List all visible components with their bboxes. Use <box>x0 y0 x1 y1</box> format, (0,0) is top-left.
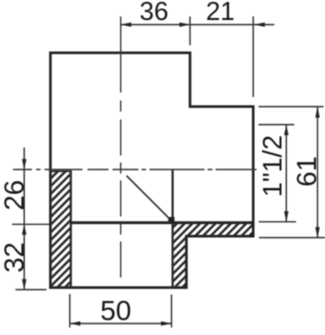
extension line bottom face y289.6 <box>16 289 47 291</box>
extension line outlet top y106.6 <box>259 106 324 108</box>
arrow down at 237.6 <box>315 227 320 238</box>
left dimension line 26 / 32 <box>23 148 25 290</box>
extension line bore right x171.5 <box>171 295 173 328</box>
seat line <box>70 221 253 224</box>
extension line bore left x69.8 <box>69 294 71 328</box>
extension line outlet bottom y237.6 <box>259 237 325 239</box>
dimension line 61 <box>317 107 319 238</box>
right bore line <box>172 170 174 288</box>
arrow up at 124.6 <box>284 125 289 136</box>
svg-text:32: 32 <box>0 242 30 273</box>
svg-text:50: 50 <box>100 295 131 326</box>
arrow down at 289.6 <box>22 279 27 290</box>
arrow right at 190 <box>180 22 191 27</box>
arrow left at 253.2 <box>254 22 264 27</box>
vertical centerline <box>120 17 122 285</box>
extension line x253 <box>252 16 254 97</box>
arrow left at 120.7 <box>121 22 132 27</box>
svg-text:36: 36 <box>140 0 169 26</box>
extension line x190 <box>189 16 191 45</box>
svg-text:21: 21 <box>206 0 235 26</box>
arrow up at 106.6 <box>315 107 320 118</box>
svg-text:1"1/2: 1"1/2 <box>258 135 288 197</box>
arrow right at 171.5 <box>161 321 172 326</box>
junction blob <box>168 217 174 222</box>
top dimension line 36 / 21 <box>121 24 275 26</box>
arrow down at 221.8 <box>284 211 289 222</box>
arrow down at 169.5 <box>22 159 27 170</box>
horizontal centerline / 26-top extension <box>13 169 257 171</box>
svg-text:61: 61 <box>291 156 322 187</box>
chamfer diagonal <box>127 176 173 222</box>
part outline <box>50 53 253 288</box>
arrow up at 224.3 <box>22 224 27 235</box>
dimension line 1"1/2 <box>285 125 287 222</box>
extension line thread top y124.6 <box>259 124 295 126</box>
bottom dimension line 50 <box>70 323 172 325</box>
arrow left at 69.8 <box>70 321 81 326</box>
svg-text:26: 26 <box>0 180 30 211</box>
extension line seat y224.3 <box>12 223 50 225</box>
extension line thread bottom y221.8 <box>259 221 296 223</box>
left wall top edge <box>49 170 72 172</box>
left bore line <box>70 171 72 287</box>
